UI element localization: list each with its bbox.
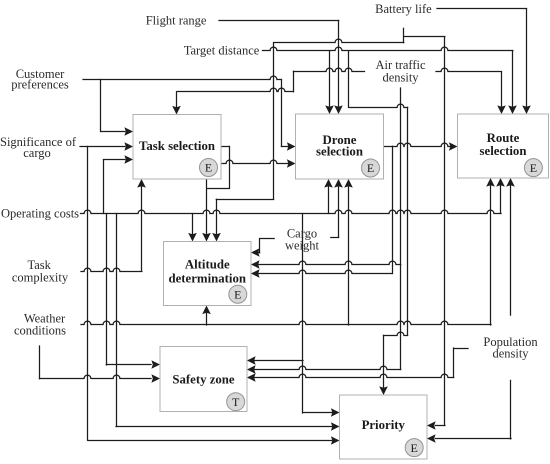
label: Task complexity [12, 258, 69, 284]
label: Cargo weight [285, 226, 320, 252]
svg-text:preferences: preferences [11, 78, 69, 92]
svg-text:complexity: complexity [12, 270, 69, 284]
wire: Customer preferences to Task selection and Drone selection [83, 76, 288, 146]
svg-text:E: E [205, 161, 212, 175]
svg-text:Priority: Priority [362, 418, 406, 432]
svg-text:E: E [411, 441, 418, 455]
svg-text:weight: weight [285, 238, 320, 252]
label: Weather conditions [14, 312, 66, 338]
svg-text:conditions: conditions [14, 324, 66, 338]
wire: Drone selection output to Route selection and Altitude determination [253, 143, 451, 273]
label: Customer preferences [11, 67, 69, 92]
label: Flight range [146, 13, 207, 27]
wire: Air traffic density bottom branch to Altitude determination and Safety zone [249, 88, 401, 370]
svg-text:Altitude: Altitude [185, 258, 230, 272]
svg-text:Flight range: Flight range [146, 13, 207, 27]
svg-text:E: E [367, 161, 374, 175]
svg-text:T: T [232, 395, 240, 409]
svg-text:Route: Route [487, 131, 520, 145]
box: Safety zone [160, 347, 247, 412]
wire: Battery life to Route selection top [437, 9, 527, 107]
wire: Flight range to Drone selection top [219, 21, 339, 107]
wire: Population density to Safety zone, Priority and Route selection [249, 186, 512, 439]
svg-text:Operating costs: Operating costs [1, 206, 79, 220]
wire: Target distance to Drone selection, Route selection and Priority [263, 47, 513, 387]
svg-text:E: E [530, 161, 537, 175]
svg-text:selection: selection [316, 145, 363, 159]
wire: Air traffic density left branch to Task selection top [177, 68, 365, 107]
box: Altitude determination [164, 242, 252, 306]
box: Task selection [133, 115, 221, 180]
svg-text:Safety zone: Safety zone [172, 372, 235, 386]
box: Priority [340, 395, 428, 459]
label: Air traffic density [375, 58, 426, 85]
svg-text:Target distance: Target distance [184, 44, 260, 58]
wire: Cargo weight to Altitude determination and Drone selection [254, 187, 339, 253]
wire: Task selection outputs to Drone selection and Altitude determination [207, 146, 289, 234]
wire: Task complexity to Task selection bottom [81, 187, 142, 272]
svg-text:Battery life: Battery life [375, 2, 432, 16]
svg-text:selection: selection [480, 144, 527, 158]
svg-text:Task selection: Task selection [139, 139, 215, 153]
svg-text:density: density [382, 71, 419, 85]
label: Significance of cargo [0, 135, 77, 160]
box: Drone selection [296, 114, 384, 179]
box: Route selection [458, 114, 549, 178]
label: Battery life [375, 2, 432, 16]
svg-text:density: density [492, 347, 529, 361]
label: Population density [483, 335, 538, 361]
wire: Air traffic density right branch to Route selection top [436, 68, 502, 106]
label: Target distance [184, 44, 260, 58]
wire: Weather conditions line with branches [40, 186, 492, 379]
svg-text:E: E [234, 288, 241, 302]
wire: Significance of cargo to Task selection and Priority [80, 146, 332, 440]
svg-text:determination: determination [169, 272, 246, 286]
wire: Operating costs line with branches [81, 160, 502, 427]
label: Operating costs [1, 206, 79, 220]
wire: Battery life bottom branch to Altitude determination and Priority [216, 28, 445, 425]
svg-text:cargo: cargo [23, 146, 51, 160]
